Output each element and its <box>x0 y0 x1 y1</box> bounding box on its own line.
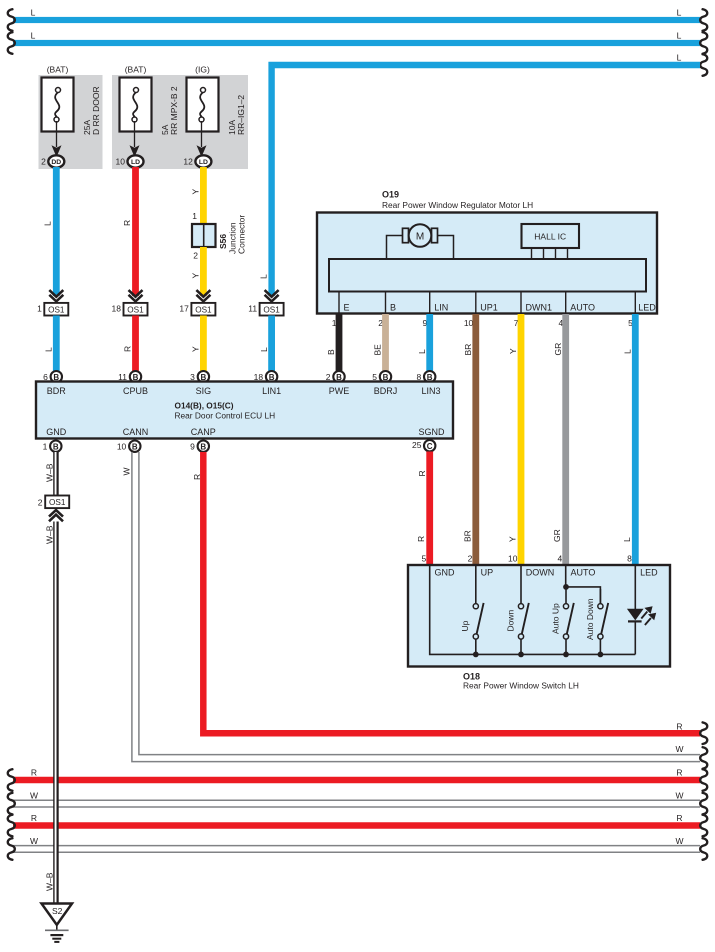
svg-text:W–B: W–B <box>45 872 55 891</box>
svg-text:M: M <box>416 231 424 242</box>
svg-text:OS1: OS1 <box>195 306 212 315</box>
svg-text:W–B: W–B <box>45 463 55 482</box>
svg-text:R: R <box>676 721 682 731</box>
break symbol bus2 left <box>8 32 15 54</box>
svg-text:Up: Up <box>460 620 470 631</box>
inner bus bar of O19 <box>329 259 646 292</box>
svg-text:UP1: UP1 <box>480 302 498 312</box>
svg-text:R: R <box>676 813 682 823</box>
pin label AUTO of O19 <box>570 302 595 312</box>
switch Down <box>505 565 529 657</box>
svg-text:O14(B), O15(C): O14(B), O15(C) <box>175 401 234 411</box>
wire label L <box>417 349 427 354</box>
break symbol right <box>700 722 707 744</box>
pin label BDR of ECU <box>47 386 67 396</box>
svg-text:R: R <box>192 474 202 480</box>
in-line arrow above 18 OS1 <box>129 290 143 303</box>
junction connector S56 <box>192 224 216 247</box>
wire label Y <box>508 348 518 354</box>
bus label W left <box>30 791 38 801</box>
label O18 <box>463 671 480 681</box>
svg-text:L: L <box>31 31 36 41</box>
connector 1 OS1 <box>37 303 68 316</box>
wire GR (AUTO) to switch AUTO <box>562 314 569 565</box>
svg-text:LIN: LIN <box>434 302 448 312</box>
pin label CPUB of ECU <box>123 386 148 396</box>
pin number 8 of switch <box>627 554 632 564</box>
svg-text:GND: GND <box>435 567 456 577</box>
svg-text:W–B: W–B <box>45 525 55 544</box>
pin label DWN1 of O19 <box>526 302 553 312</box>
wire label L <box>44 347 54 352</box>
pin label CANP of ECU <box>191 427 216 437</box>
pin label CANN of ECU <box>123 427 149 437</box>
wire R SGND to switch GND <box>426 452 433 565</box>
pin label PWE of ECU <box>329 386 350 396</box>
break symbol right <box>700 838 707 860</box>
motor M brushes <box>403 228 438 242</box>
bus label R right <box>676 721 682 731</box>
svg-text:R: R <box>31 768 37 778</box>
pin label B of O19 <box>390 302 396 312</box>
pin number 10 of O19 <box>464 318 474 328</box>
HALL IC leads <box>532 248 568 259</box>
svg-text:B: B <box>390 302 396 312</box>
connector 2 DD <box>41 155 64 167</box>
svg-text:L: L <box>43 221 53 226</box>
motor assembly O19 box <box>317 213 657 314</box>
svg-text:O19: O19 <box>382 190 399 200</box>
svg-text:R: R <box>122 220 132 226</box>
svg-text:Y: Y <box>190 273 200 279</box>
svg-text:B: B <box>132 442 138 451</box>
junction block background (5A/10A fuses) <box>112 75 248 169</box>
wire L (LIN pin) to LIN3 <box>426 314 433 371</box>
connector 25 C at ECU SGND <box>412 440 435 451</box>
svg-text:Down: Down <box>505 609 515 631</box>
svg-text:25: 25 <box>412 440 422 450</box>
svg-text:C: C <box>427 442 433 451</box>
switch AUTO feed <box>563 565 600 604</box>
svg-text:BE: BE <box>373 344 383 356</box>
label O19 <box>382 190 399 200</box>
svg-text:Connector: Connector <box>237 215 247 254</box>
break symbol right <box>700 815 707 837</box>
wire BR (UP1) to switch UP <box>472 314 479 565</box>
pin number 9 of O19 <box>422 318 427 328</box>
pin 1 of S56 <box>192 211 197 221</box>
svg-text:L: L <box>622 537 632 542</box>
bus label R left <box>31 813 37 823</box>
svg-text:LED: LED <box>638 302 656 312</box>
svg-text:1: 1 <box>43 442 48 452</box>
in-line arrow above 1 OS1 <box>49 290 63 303</box>
bus label R left <box>31 768 37 778</box>
in-line arrow above 17 OS1 <box>196 290 210 303</box>
svg-text:(IG): (IG) <box>195 65 210 75</box>
wire label L (LIN1 feed) <box>259 274 269 279</box>
break symbol bus1 right <box>700 9 707 31</box>
O19 pin cell dividers <box>339 292 635 314</box>
ECU O14(B) O15(C) box <box>36 382 453 439</box>
svg-text:Rear Power Window Regulator Mo: Rear Power Window Regulator Motor LH <box>382 200 533 210</box>
svg-text:LD: LD <box>131 159 140 166</box>
svg-text:10: 10 <box>117 442 127 452</box>
svg-text:Y: Y <box>508 348 518 354</box>
svg-text:L: L <box>259 274 269 279</box>
wire L bus 1 (top) <box>13 17 700 23</box>
wire label GR <box>552 529 562 542</box>
motor M leads <box>387 236 454 260</box>
svg-text:Y: Y <box>191 346 201 352</box>
pin number 4 of O19 <box>558 318 563 328</box>
svg-text:5: 5 <box>421 554 426 564</box>
svg-text:11: 11 <box>248 304 257 314</box>
break symbol left <box>8 793 15 815</box>
wire label R <box>416 536 426 542</box>
wire L 1 OS1 to ECU <box>53 316 60 372</box>
connector 1 B at ECU GND <box>43 441 62 452</box>
svg-text:BDR: BDR <box>47 386 67 396</box>
wire L (LED) to switch LED <box>632 314 639 565</box>
svg-text:BDRJ: BDRJ <box>374 386 398 396</box>
svg-text:HALL IC: HALL IC <box>534 231 566 241</box>
connector 2 B at ECU <box>326 371 345 382</box>
wire label L <box>43 221 53 226</box>
svg-text:10: 10 <box>508 554 518 564</box>
node label L bus2 left <box>31 31 36 41</box>
pin label UP1 of O19 <box>480 302 498 312</box>
wire label W-B lower <box>45 872 55 891</box>
svg-text:(BAT): (BAT) <box>47 65 69 75</box>
junction block background (25A fuse) <box>39 75 103 169</box>
svg-text:R: R <box>417 470 427 476</box>
bus label W right <box>675 744 683 754</box>
LED <box>627 609 644 622</box>
svg-text:OS1: OS1 <box>263 306 280 315</box>
wire label R (CANP) <box>192 474 202 480</box>
motor M <box>409 224 432 247</box>
svg-text:L: L <box>31 8 36 18</box>
wire label L <box>259 347 269 352</box>
svg-text:OS1: OS1 <box>127 306 144 315</box>
bus label R right <box>676 813 682 823</box>
connector 6 B at ECU <box>43 371 62 382</box>
svg-text:10: 10 <box>464 318 474 328</box>
break symbol right <box>700 793 707 815</box>
svg-text:9: 9 <box>190 442 195 452</box>
svg-text:18: 18 <box>112 304 122 314</box>
wire label Y <box>191 346 201 352</box>
pin 2 of S56 <box>193 251 198 261</box>
pin label LIN3 of ECU <box>421 386 440 396</box>
label O14(B), O15(C) <box>175 401 234 411</box>
svg-text:CANP: CANP <box>191 427 216 437</box>
break symbol bus1 left <box>8 9 15 31</box>
svg-text:Auto Down: Auto Down <box>585 598 595 640</box>
svg-text:UP: UP <box>481 567 494 577</box>
bus label R right <box>676 768 682 778</box>
connector 9 B at ECU CANP <box>190 441 209 452</box>
svg-text:LIN3: LIN3 <box>421 386 440 396</box>
ground S2 <box>42 904 73 931</box>
connector 11 B at ECU <box>118 371 141 382</box>
wire label BR <box>462 530 472 542</box>
pin number 2 of O19 <box>378 318 383 328</box>
connector 11 OS1 <box>248 303 283 316</box>
wire L bus 2 (top) <box>13 40 700 46</box>
pin number 5 of O19 <box>628 318 633 328</box>
wire Y S56 to 17 OS1 <box>200 247 207 296</box>
pin label LED of O19 <box>638 302 656 312</box>
wire label R <box>122 220 132 226</box>
wire label B <box>326 349 336 355</box>
pin number 7 of O19 <box>514 318 519 328</box>
svg-text:GND: GND <box>46 427 67 437</box>
svg-text:PWE: PWE <box>329 386 350 396</box>
in-line arrow below 2 OS1 <box>49 508 63 521</box>
connector 8 B at ECU <box>416 371 435 382</box>
connector 17 OS1 <box>179 303 215 316</box>
svg-text:L: L <box>259 347 269 352</box>
svg-text:Y: Y <box>508 536 518 542</box>
wire label GR <box>553 343 563 356</box>
svg-text:DOWN: DOWN <box>526 567 555 577</box>
wire label W (CANN) <box>122 467 132 475</box>
switch Up <box>460 565 484 657</box>
node label L bus3 right <box>677 53 682 63</box>
LED lead <box>634 565 636 654</box>
svg-text:2: 2 <box>193 251 198 261</box>
fuse 5A RR MPX-B 2 <box>120 65 180 136</box>
ground symbol <box>45 930 69 942</box>
wire W CANN to right edge <box>132 452 700 762</box>
svg-text:OS1: OS1 <box>48 306 65 315</box>
connector 3 B at ECU <box>190 371 209 382</box>
wire R bus lower 2 <box>13 822 700 829</box>
wire label Y <box>508 536 518 542</box>
wire W bus lower 1 <box>13 800 700 807</box>
svg-text:R: R <box>31 813 37 823</box>
wire label L <box>622 537 632 542</box>
break symbol right <box>700 769 707 791</box>
svg-text:S56: S56 <box>218 234 228 249</box>
svg-text:(BAT): (BAT) <box>125 65 147 75</box>
svg-text:1: 1 <box>192 211 197 221</box>
svg-text:2: 2 <box>38 498 43 508</box>
fuse 10A RR–IG1–2 <box>187 65 247 136</box>
svg-text:Rear Power Window Switch LH: Rear Power Window Switch LH <box>463 681 579 691</box>
wire label R upper (SGND) <box>417 470 427 476</box>
svg-text:B: B <box>326 349 336 355</box>
svg-text:W: W <box>675 744 683 754</box>
wire R 18 OS1 to ECU <box>132 316 139 372</box>
pin label LIN1 of ECU <box>262 386 281 396</box>
svg-text:W: W <box>30 836 38 846</box>
switch GND conductor and common rail <box>430 565 636 654</box>
HALL IC <box>522 224 580 248</box>
svg-text:S2: S2 <box>52 906 63 916</box>
wire B (E pin) to PWE <box>336 314 343 371</box>
wire L fuse1 to 1 OS1 <box>53 167 60 296</box>
pin label UP of switch <box>481 567 494 577</box>
wire Y 17 OS1 to ECU <box>200 316 207 372</box>
break symbol left <box>8 838 15 860</box>
svg-text:W: W <box>675 791 683 801</box>
connector 18 B at ECU <box>254 371 278 382</box>
connector 2 OS1 <box>38 496 69 509</box>
connector 18 OS1 <box>112 303 148 316</box>
node label L bus2 right <box>677 31 682 41</box>
svg-text:L: L <box>677 31 682 41</box>
bus label W right <box>675 791 683 801</box>
pin label SGND of ECU <box>418 427 445 437</box>
pin label GND of ECU <box>46 427 67 437</box>
wire label R <box>123 346 133 352</box>
switch Auto Down <box>585 589 608 657</box>
svg-text:LD: LD <box>199 159 208 166</box>
svg-text:4: 4 <box>557 554 562 564</box>
node label L bus1 left <box>31 8 36 18</box>
in-line arrow above 11 OS1 <box>265 290 279 303</box>
wire label Y <box>190 273 200 279</box>
svg-text:GR: GR <box>553 343 563 356</box>
svg-text:17: 17 <box>179 304 189 314</box>
svg-text:L: L <box>677 53 682 63</box>
svg-text:CANN: CANN <box>123 427 149 437</box>
wire label L <box>623 349 633 354</box>
bus label W left <box>30 836 38 846</box>
wire W-B 2 OS1 to ground S2 <box>54 522 59 904</box>
wire label Y <box>190 189 200 195</box>
svg-text:Y: Y <box>190 189 200 195</box>
pin label GND of switch <box>435 567 456 577</box>
svg-text:Auto Up: Auto Up <box>551 603 561 634</box>
pin label SIG of ECU <box>196 386 212 396</box>
svg-text:8: 8 <box>627 554 632 564</box>
svg-text:CPUB: CPUB <box>123 386 148 396</box>
svg-text:L: L <box>417 349 427 354</box>
svg-text:L: L <box>677 8 682 18</box>
fuse lead arrow to 12 LD <box>197 121 207 157</box>
pin label LED of switch <box>640 567 658 577</box>
break symbol bus2 right <box>700 32 707 54</box>
svg-text:LED: LED <box>640 567 658 577</box>
svg-text:L: L <box>623 349 633 354</box>
pin label BDRJ of ECU <box>374 386 398 396</box>
svg-text:Rear Door Control ECU LH: Rear Door Control ECU LH <box>175 411 276 421</box>
wire label BE <box>373 344 383 356</box>
pin number 1 of O19 <box>332 318 337 328</box>
svg-text:W: W <box>675 836 683 846</box>
svg-text:B: B <box>200 442 206 451</box>
svg-text:BR: BR <box>462 530 472 542</box>
wire label W-B <box>45 463 55 482</box>
wire Y fuse3 to S56 <box>200 167 207 224</box>
pin label AUTO of switch <box>571 567 596 577</box>
svg-text:2: 2 <box>468 554 473 564</box>
svg-text:R: R <box>676 768 682 778</box>
svg-text:GR: GR <box>552 529 562 542</box>
break symbol right <box>700 747 707 769</box>
break symbol bus3 right <box>700 54 707 76</box>
node label L bus1 right <box>677 8 682 18</box>
LED light arrows <box>641 606 656 625</box>
wire W bus lower 2 <box>13 846 700 853</box>
svg-text:AUTO: AUTO <box>570 302 595 312</box>
break symbol left <box>8 815 15 837</box>
svg-text:LIN1: LIN1 <box>262 386 281 396</box>
wire Y (DWN1) to switch DOWN <box>518 314 525 565</box>
svg-text:E: E <box>344 302 350 312</box>
label Rear Door Control ECU LH <box>175 411 276 421</box>
break symbol left <box>8 769 15 791</box>
wire label BR <box>463 344 473 356</box>
pin number 2 of switch <box>468 554 473 564</box>
svg-text:BR: BR <box>463 344 473 356</box>
connector 10 LD <box>116 155 144 167</box>
connector 10 B at ECU CANN <box>117 441 141 452</box>
svg-text:10: 10 <box>116 157 126 167</box>
pin label E of O19 <box>344 302 350 312</box>
label Rear Power Window Switch LH <box>463 681 579 691</box>
svg-text:AUTO: AUTO <box>571 567 596 577</box>
svg-text:DD: DD <box>51 159 61 166</box>
wire L 11 OS1 to ECU <box>268 316 275 372</box>
wire BE (B pin) to BDRJ <box>382 314 389 371</box>
fuse lead arrow to 2 DD <box>52 121 62 157</box>
svg-text:SGND: SGND <box>418 427 445 437</box>
wire R CANP to right edge <box>203 452 700 733</box>
pin number 5 of switch <box>421 554 426 564</box>
svg-text:1: 1 <box>37 304 42 314</box>
pin label DOWN of switch <box>526 567 555 577</box>
wire label W-B <box>45 525 55 544</box>
svg-text:DWN1: DWN1 <box>526 302 553 312</box>
svg-text:R: R <box>416 536 426 542</box>
svg-text:W: W <box>30 791 38 801</box>
connector 5 B at ECU <box>372 371 391 382</box>
svg-text:B: B <box>53 442 59 451</box>
svg-text:SIG: SIG <box>196 386 212 396</box>
wire L bus 3 to connector 11 OS1 <box>272 65 700 296</box>
label Rear Power Window Regulator Motor LH <box>382 200 533 210</box>
wire R bus lower 1 <box>13 777 700 784</box>
bus label W right <box>675 836 683 846</box>
label S56 Junction Connector <box>218 215 247 254</box>
svg-text:W: W <box>122 467 132 475</box>
svg-text:2: 2 <box>41 157 46 167</box>
pin number 10 of switch <box>508 554 518 564</box>
svg-text:R: R <box>123 346 133 352</box>
pin label LIN of O19 <box>434 302 448 312</box>
wire W-B ECU GND to 2 OS1 <box>54 452 59 496</box>
fuse lead arrow to 10 LD <box>130 121 140 157</box>
svg-text:12: 12 <box>183 157 193 167</box>
switch O18 box <box>408 565 670 667</box>
pin number 4 of switch <box>557 554 562 564</box>
connector 12 LD <box>183 155 211 167</box>
switch Auto Up <box>551 589 574 657</box>
fuse 25A D RR DOOR <box>42 65 102 136</box>
svg-text:OS1: OS1 <box>49 498 66 507</box>
wire R fuse2 to 18 OS1 <box>132 167 139 296</box>
svg-text:L: L <box>44 347 54 352</box>
